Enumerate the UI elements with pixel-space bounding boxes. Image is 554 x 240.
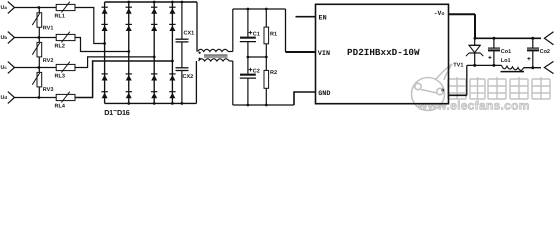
svg-text:CX1: CX1 xyxy=(184,31,195,37)
svg-text:D1~D16: D1~D16 xyxy=(104,106,130,117)
svg-text:-Vo: -Vo xyxy=(434,10,445,17)
svg-text:VIN: VIN xyxy=(318,50,330,58)
svg-text:CX2: CX2 xyxy=(183,74,194,80)
svg-text:GND: GND xyxy=(318,90,330,98)
svg-text:C2: C2 xyxy=(253,68,260,74)
svg-text:Co2: Co2 xyxy=(540,49,550,55)
svg-text:RL4: RL4 xyxy=(55,104,66,110)
svg-text:www.elecfans.com: www.elecfans.com xyxy=(417,99,530,113)
svg-text:TV1: TV1 xyxy=(453,63,463,69)
svg-text:RV1: RV1 xyxy=(43,26,54,32)
svg-text:RL3: RL3 xyxy=(55,74,65,80)
svg-text:o: o xyxy=(441,87,444,93)
svg-text:RL2: RL2 xyxy=(55,44,65,50)
svg-text:Lo1: Lo1 xyxy=(501,58,511,64)
svg-text:RL1: RL1 xyxy=(55,14,65,20)
svg-text:RV2: RV2 xyxy=(43,58,54,64)
svg-text:RV3: RV3 xyxy=(43,87,54,93)
svg-text:C1: C1 xyxy=(253,31,260,37)
svg-text:PD2IHBxxD-10W: PD2IHBxxD-10W xyxy=(347,47,420,58)
svg-text:R2: R2 xyxy=(270,70,277,76)
svg-text:Co1: Co1 xyxy=(501,49,511,55)
svg-text:EN: EN xyxy=(319,14,327,22)
svg-text:R1: R1 xyxy=(270,31,277,37)
